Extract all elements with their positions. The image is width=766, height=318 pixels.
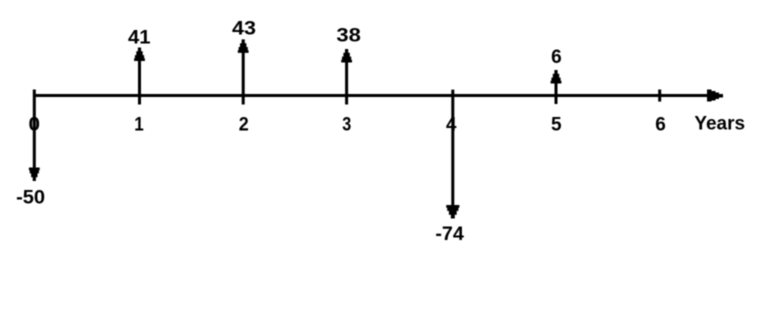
- tick at year 6: [658, 90, 661, 102]
- value label -74: [435, 224, 464, 245]
- value label 41: [128, 28, 151, 49]
- year label 1: [134, 114, 144, 135]
- year label 0: [29, 114, 41, 135]
- up arrow at year 3: [341, 49, 352, 105]
- svg-text:-74: -74: [435, 224, 464, 245]
- axis right arrowhead: [707, 90, 723, 102]
- svg-text:4: 4: [446, 114, 457, 135]
- svg-text:-50: -50: [16, 187, 45, 208]
- svg-text:2: 2: [239, 114, 249, 135]
- year label 3: [342, 114, 351, 135]
- up arrow at year 2: [238, 39, 249, 104]
- year label 2: [239, 114, 249, 135]
- year label 5: [551, 114, 562, 135]
- svg-text:Years: Years: [694, 114, 745, 135]
- value label -50: [16, 187, 45, 208]
- svg-text:41: 41: [128, 28, 151, 49]
- svg-text:43: 43: [232, 18, 256, 39]
- value label 43: [232, 18, 256, 39]
- value label 6: [551, 47, 562, 68]
- svg-text:0: 0: [29, 114, 41, 135]
- svg-text:6: 6: [655, 114, 666, 135]
- svg-text:5: 5: [551, 114, 562, 135]
- value label 38: [336, 26, 361, 47]
- arrowhead of -50 arrow: [29, 168, 40, 182]
- up arrow at year 1: [134, 48, 145, 105]
- year label 6: [655, 114, 666, 135]
- axis label Years: [694, 114, 745, 135]
- svg-text:3: 3: [342, 114, 351, 135]
- up arrow at year 5: [551, 70, 562, 104]
- year label 4: [446, 114, 457, 135]
- node 0 tick and down arrow shaft: [33, 90, 36, 171]
- wire: horizontal time axis: [33, 94, 709, 97]
- svg-text:38: 38: [336, 26, 361, 47]
- down arrow at year 4: [446, 90, 459, 219]
- svg-text:1: 1: [134, 114, 144, 135]
- svg-text:6: 6: [551, 47, 562, 68]
